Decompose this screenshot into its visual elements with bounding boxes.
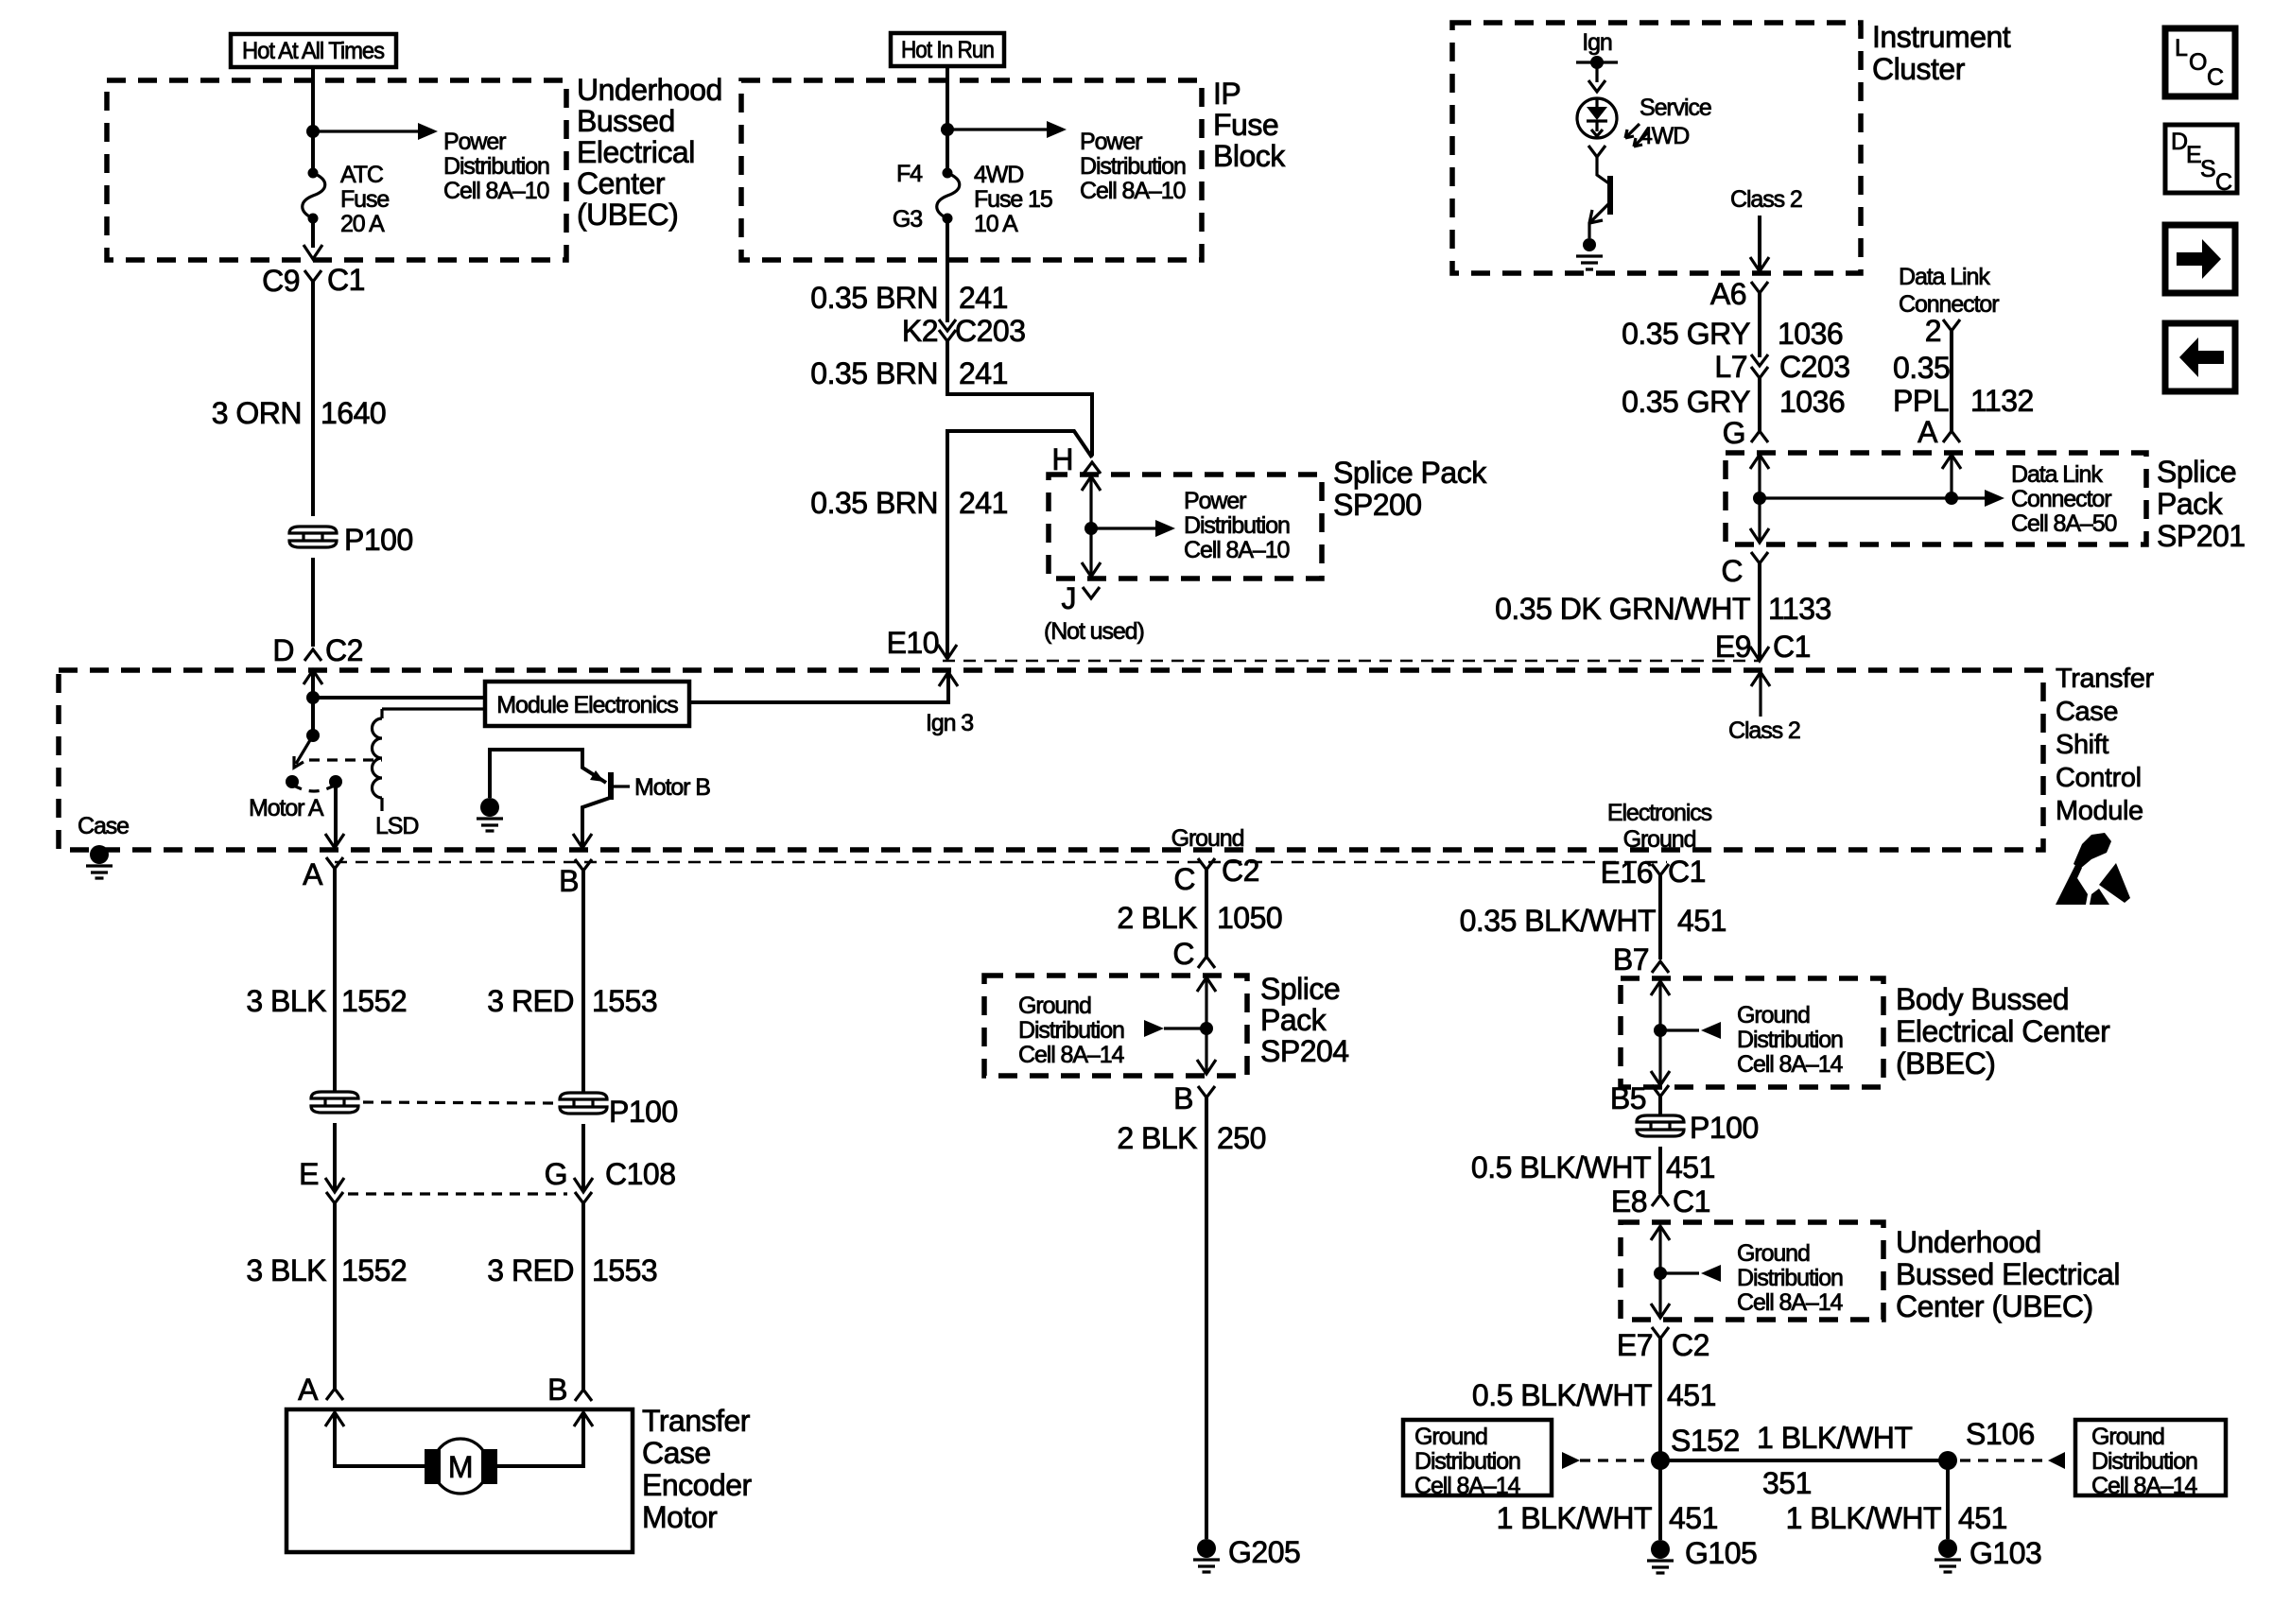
svg-text:1553: 1553 — [592, 1253, 657, 1287]
svg-text:0.35 DK GRN/WHT: 0.35 DK GRN/WHT — [1495, 592, 1750, 626]
svg-text:P100: P100 — [609, 1095, 678, 1129]
svg-text:451: 451 — [1958, 1501, 2007, 1535]
svg-text:1640: 1640 — [321, 396, 386, 430]
svg-text:Transfer: Transfer — [642, 1404, 751, 1438]
svg-text:PPL: PPL — [1893, 384, 1949, 418]
svg-text:S: S — [2200, 156, 2215, 182]
svg-text:Distribution: Distribution — [1737, 1027, 1843, 1053]
svg-text:LSD: LSD — [375, 813, 418, 839]
svg-text:S106: S106 — [1966, 1417, 2035, 1451]
svg-text:B7: B7 — [1613, 942, 1649, 976]
svg-text:Cell 8A–14: Cell 8A–14 — [1414, 1473, 1520, 1499]
svg-text:Motor B: Motor B — [634, 774, 710, 801]
svg-text:Ground: Ground — [2091, 1424, 2164, 1450]
svg-text:Splice: Splice — [2157, 455, 2236, 489]
svg-text:Power: Power — [1184, 488, 1246, 514]
svg-text:1133: 1133 — [1768, 592, 1831, 626]
svg-text:1 BLK/WHT: 1 BLK/WHT — [1757, 1421, 1912, 1455]
svg-text:A: A — [298, 1373, 319, 1407]
svg-text:Electrical: Electrical — [577, 135, 695, 169]
svg-text:G: G — [1723, 416, 1745, 450]
svg-text:1036: 1036 — [1778, 317, 1843, 351]
svg-text:Cell 8A–50: Cell 8A–50 — [2011, 510, 2116, 537]
svg-text:Power: Power — [1080, 129, 1142, 155]
svg-text:Control: Control — [2056, 763, 2142, 793]
svg-text:2 BLK: 2 BLK — [1117, 901, 1197, 935]
svg-text:Data Link: Data Link — [2011, 461, 2103, 488]
svg-text:Distribution: Distribution — [1080, 153, 1186, 180]
svg-text:Power: Power — [443, 129, 506, 155]
svg-text:B: B — [1173, 1081, 1193, 1115]
svg-text:Ground: Ground — [1018, 993, 1091, 1019]
svg-text:1050: 1050 — [1217, 901, 1282, 935]
svg-text:G: G — [545, 1157, 567, 1191]
svg-text:Underhood: Underhood — [577, 73, 722, 107]
svg-text:Splice: Splice — [1260, 972, 1340, 1006]
svg-text:1552: 1552 — [341, 984, 407, 1018]
svg-text:F4: F4 — [896, 161, 923, 187]
svg-text:0.35 BRN: 0.35 BRN — [810, 281, 938, 315]
svg-text:G105: G105 — [1685, 1536, 1757, 1570]
svg-text:Bussed Electrical: Bussed Electrical — [1896, 1257, 2120, 1291]
svg-text:C: C — [1172, 937, 1194, 971]
svg-text:1 BLK/WHT: 1 BLK/WHT — [1497, 1501, 1652, 1535]
svg-text:C1: C1 — [1668, 855, 1706, 889]
svg-text:3 ORN: 3 ORN — [212, 396, 302, 430]
svg-text:Transfer: Transfer — [2056, 664, 2154, 694]
svg-text:1552: 1552 — [341, 1253, 407, 1287]
svg-text:1553: 1553 — [592, 984, 657, 1018]
svg-text:3 RED: 3 RED — [487, 1253, 574, 1287]
svg-text:Center (UBEC): Center (UBEC) — [1896, 1289, 2093, 1323]
svg-text:Motor: Motor — [642, 1500, 718, 1534]
svg-text:Distribution: Distribution — [2091, 1448, 2197, 1475]
svg-text:0.35 GRY: 0.35 GRY — [1622, 385, 1750, 419]
svg-text:4WD: 4WD — [974, 162, 1023, 188]
svg-text:E: E — [299, 1157, 319, 1191]
svg-text:351: 351 — [1762, 1466, 1812, 1500]
svg-text:Splice Pack: Splice Pack — [1333, 456, 1487, 490]
svg-text:241: 241 — [959, 356, 1008, 390]
svg-text:E: E — [2186, 142, 2201, 168]
svg-text:A: A — [303, 857, 323, 891]
svg-text:E8: E8 — [1611, 1184, 1647, 1218]
svg-text:ATC: ATC — [340, 162, 384, 188]
svg-text:Data Link: Data Link — [1899, 264, 1990, 290]
svg-text:Cell 8A–10: Cell 8A–10 — [443, 178, 548, 204]
svg-text:Ground: Ground — [1737, 1240, 1810, 1267]
svg-text:Module: Module — [2056, 796, 2143, 826]
svg-text:C1: C1 — [1773, 630, 1811, 664]
svg-text:451: 451 — [1677, 904, 1726, 938]
svg-text:S152: S152 — [1671, 1424, 1740, 1458]
svg-text:Shift: Shift — [2056, 730, 2108, 760]
svg-text:Block: Block — [1213, 139, 1286, 173]
svg-text:Module Electronics: Module Electronics — [496, 692, 678, 718]
svg-text:451: 451 — [1666, 1150, 1715, 1184]
svg-text:Bussed: Bussed — [577, 104, 675, 138]
svg-text:Ign: Ign — [1582, 29, 1612, 56]
svg-text:Ground: Ground — [1171, 825, 1244, 852]
svg-text:C2: C2 — [325, 633, 363, 667]
svg-text:C: C — [1173, 862, 1195, 896]
svg-text:C9: C9 — [262, 264, 300, 298]
svg-text:Cell 8A–14: Cell 8A–14 — [1737, 1051, 1843, 1078]
svg-text:Connector: Connector — [1899, 291, 1999, 318]
svg-text:Ground: Ground — [1737, 1002, 1810, 1028]
svg-text:Cell 8A–10: Cell 8A–10 — [1184, 537, 1289, 563]
svg-text:C203: C203 — [955, 314, 1026, 348]
svg-text:P100: P100 — [344, 523, 413, 557]
svg-text:C: C — [2207, 64, 2224, 91]
svg-text:A: A — [1917, 415, 1938, 449]
svg-text:(UBEC): (UBEC) — [577, 198, 678, 232]
svg-text:Electrical Center: Electrical Center — [1896, 1014, 2110, 1048]
svg-text:L7: L7 — [1714, 350, 1747, 384]
svg-text:250: 250 — [1217, 1121, 1266, 1155]
svg-text:Hot At All Times: Hot At All Times — [242, 38, 385, 64]
svg-text:H: H — [1051, 442, 1073, 476]
svg-text:20 A: 20 A — [340, 211, 385, 237]
svg-text:K2: K2 — [902, 314, 938, 348]
svg-text:Pack: Pack — [2157, 487, 2224, 521]
svg-text:Connector: Connector — [2011, 486, 2111, 512]
svg-text:M: M — [448, 1450, 473, 1484]
svg-text:Pack: Pack — [1260, 1003, 1327, 1037]
svg-text:Fuse: Fuse — [1213, 108, 1278, 142]
svg-text:Class 2: Class 2 — [1728, 717, 1800, 744]
svg-text:Center: Center — [577, 166, 666, 200]
svg-text:L: L — [2175, 35, 2188, 61]
svg-text:Body Bussed: Body Bussed — [1896, 982, 2069, 1016]
svg-text:(Not used): (Not used) — [1044, 618, 1144, 645]
svg-text:C2: C2 — [1672, 1328, 1709, 1362]
svg-text:Distribution: Distribution — [1184, 512, 1290, 539]
svg-text:Cluster: Cluster — [1872, 52, 1966, 86]
svg-text:C1: C1 — [327, 263, 365, 297]
svg-text:J: J — [1062, 581, 1077, 615]
svg-text:Ground: Ground — [1623, 826, 1696, 853]
svg-text:Case: Case — [78, 813, 129, 839]
svg-text:Ground: Ground — [1414, 1424, 1487, 1450]
svg-text:C: C — [2215, 169, 2232, 196]
svg-text:Distribution: Distribution — [1414, 1448, 1520, 1475]
svg-text:0.35 BRN: 0.35 BRN — [810, 356, 938, 390]
svg-text:G103: G103 — [1969, 1536, 2041, 1570]
svg-text:Distribution: Distribution — [1737, 1265, 1843, 1291]
svg-text:D: D — [2171, 129, 2187, 155]
svg-text:Encoder: Encoder — [642, 1468, 753, 1502]
svg-text:1036: 1036 — [1779, 385, 1845, 419]
svg-text:A6: A6 — [1710, 277, 1746, 311]
svg-text:E9: E9 — [1715, 630, 1751, 664]
svg-text:451: 451 — [1667, 1378, 1716, 1412]
svg-text:C108: C108 — [605, 1157, 676, 1191]
svg-text:D: D — [272, 633, 294, 667]
svg-text:(BBEC): (BBEC) — [1896, 1046, 1995, 1080]
svg-text:10 A: 10 A — [974, 211, 1018, 237]
svg-text:Case: Case — [642, 1436, 711, 1470]
svg-text:Underhood: Underhood — [1896, 1225, 2041, 1259]
svg-text:Service: Service — [1640, 95, 1711, 121]
svg-text:E7: E7 — [1617, 1328, 1653, 1362]
svg-text:SP200: SP200 — [1333, 488, 1422, 522]
svg-text:SP204: SP204 — [1260, 1034, 1349, 1068]
svg-text:Ign 3: Ign 3 — [926, 710, 973, 736]
svg-text:E10: E10 — [887, 626, 939, 660]
svg-text:Motor A: Motor A — [249, 795, 324, 821]
svg-text:Distribution: Distribution — [443, 153, 549, 180]
svg-text:Class 2: Class 2 — [1730, 186, 1802, 213]
svg-text:Cell 8A–10: Cell 8A–10 — [1080, 178, 1185, 204]
svg-text:3 RED: 3 RED — [487, 984, 574, 1018]
svg-text:2: 2 — [1925, 314, 1941, 348]
svg-text:0.35 GRY: 0.35 GRY — [1622, 317, 1750, 351]
svg-text:C2: C2 — [1222, 854, 1259, 888]
svg-text:Cell 8A–14: Cell 8A–14 — [2091, 1473, 2197, 1499]
svg-text:Fuse 15: Fuse 15 — [974, 186, 1052, 213]
svg-text:0.35 BRN: 0.35 BRN — [810, 486, 938, 520]
svg-text:1 BLK/WHT: 1 BLK/WHT — [1786, 1501, 1941, 1535]
svg-text:1132: 1132 — [1970, 384, 2034, 418]
svg-text:Cell 8A–14: Cell 8A–14 — [1737, 1289, 1843, 1316]
svg-text:Hot In Run: Hot In Run — [901, 37, 994, 63]
svg-text:451: 451 — [1669, 1501, 1718, 1535]
svg-text:E16: E16 — [1601, 855, 1653, 890]
svg-text:0.5 BLK/WHT: 0.5 BLK/WHT — [1472, 1378, 1652, 1412]
svg-text:G3: G3 — [893, 206, 922, 233]
svg-text:G205: G205 — [1228, 1535, 1300, 1569]
svg-text:Case: Case — [2056, 697, 2118, 727]
svg-text:3 BLK: 3 BLK — [246, 1253, 326, 1287]
svg-text:Distribution: Distribution — [1018, 1017, 1124, 1044]
svg-text:C203: C203 — [1779, 350, 1850, 384]
svg-text:SP201: SP201 — [2157, 519, 2246, 553]
svg-text:3 BLK: 3 BLK — [246, 984, 326, 1018]
svg-text:2 BLK: 2 BLK — [1117, 1121, 1197, 1155]
svg-text:Cell 8A–14: Cell 8A–14 — [1018, 1042, 1124, 1068]
svg-text:C: C — [1721, 554, 1743, 588]
svg-text:Fuse: Fuse — [340, 186, 389, 213]
svg-text:4WD: 4WD — [1640, 123, 1689, 149]
svg-text:0.35: 0.35 — [1893, 351, 1950, 385]
svg-text:241: 241 — [959, 486, 1008, 520]
svg-text:B: B — [559, 864, 579, 898]
svg-text:O: O — [2189, 49, 2207, 76]
svg-text:0.35 BLK/WHT: 0.35 BLK/WHT — [1460, 904, 1656, 938]
svg-text:C1: C1 — [1673, 1184, 1710, 1218]
svg-text:P100: P100 — [1690, 1111, 1759, 1145]
svg-text:IP: IP — [1213, 77, 1241, 111]
svg-text:241: 241 — [959, 281, 1008, 315]
svg-text:Instrument: Instrument — [1872, 20, 2011, 54]
svg-text:B: B — [547, 1373, 567, 1407]
svg-text:B5: B5 — [1610, 1081, 1646, 1115]
svg-text:Electronics: Electronics — [1607, 800, 1712, 826]
svg-text:0.5 BLK/WHT: 0.5 BLK/WHT — [1471, 1150, 1651, 1184]
